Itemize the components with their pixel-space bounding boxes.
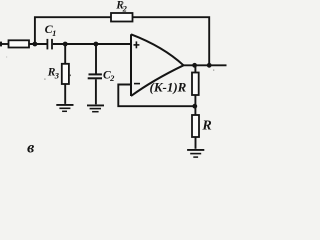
svg-text:R: R bbox=[201, 118, 211, 133]
svg-text:(K-1)R: (K-1)R bbox=[150, 79, 187, 94]
svg-text:в: в bbox=[27, 139, 34, 156]
